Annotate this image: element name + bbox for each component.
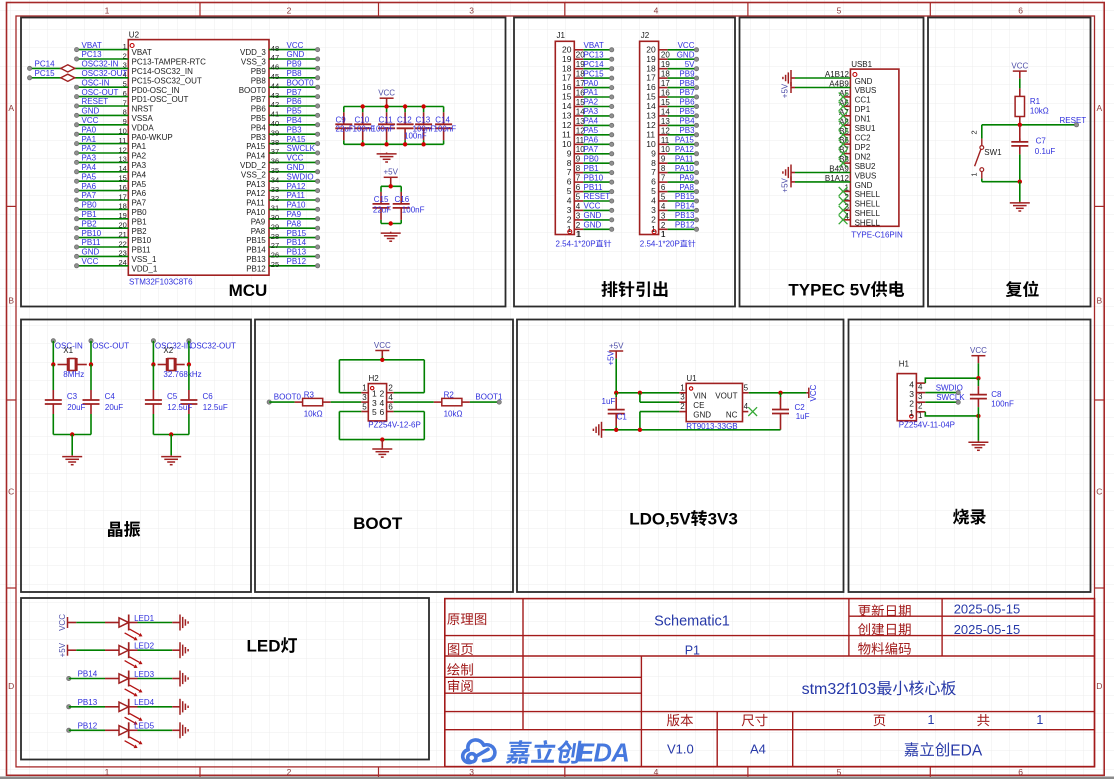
LED4 row, source PB13 [67, 705, 71, 709]
svg-text:PB2: PB2 [82, 219, 98, 228]
svg-text:5: 5 [576, 193, 581, 202]
wire [583, 228, 611, 230]
svg-text:RESET: RESET [82, 97, 109, 106]
svg-text:15: 15 [119, 174, 127, 183]
svg-text:40: 40 [271, 119, 279, 128]
svg-text:VCC: VCC [287, 41, 304, 50]
ground [977, 441, 979, 442]
svg-text:1uF: 1uF [796, 412, 810, 421]
ground [179, 722, 181, 738]
wire [69, 706, 105, 708]
wire [77, 86, 129, 88]
svg-text:VSS_2: VSS_2 [241, 170, 266, 179]
wire [583, 143, 611, 145]
svg-text:VBAT: VBAT [82, 41, 102, 50]
wire [925, 392, 958, 394]
svg-text:R1: R1 [1030, 97, 1041, 106]
wire [76, 649, 105, 651]
wire [76, 622, 105, 624]
svg-text:EDA: EDA [577, 740, 629, 768]
wire [269, 114, 318, 116]
svg-text:0.1uF: 0.1uF [1035, 147, 1056, 156]
svg-text:PA3: PA3 [82, 154, 97, 163]
power flag VCC rotated [806, 392, 808, 394]
wire [386, 107, 388, 113]
J2 pin 8 net PA11 [659, 162, 668, 164]
junction [403, 142, 407, 146]
wire [138, 622, 173, 624]
svg-text:V1.0: V1.0 [667, 742, 694, 757]
svg-text:OSC-OUT: OSC-OUT [92, 342, 129, 351]
ground [381, 448, 383, 449]
svg-text:PB14: PB14 [78, 670, 98, 679]
svg-text:NRST: NRST [132, 105, 154, 114]
wire [981, 179, 983, 182]
title block table [445, 599, 1095, 767]
svg-text:26: 26 [271, 251, 279, 260]
svg-text:9: 9 [661, 155, 666, 164]
junction [1018, 123, 1022, 127]
svg-text:PA9: PA9 [679, 173, 694, 182]
svg-text:13: 13 [119, 155, 127, 164]
LED3 row, source PB14 [67, 676, 71, 680]
J1 pin 16 net PA0 [574, 87, 583, 89]
svg-text:+5V: +5V [607, 350, 616, 365]
J1 pin 8 net PB0 [574, 162, 583, 164]
wire [443, 140, 445, 144]
J2 pin 14 net PB6 [659, 106, 668, 108]
svg-text:36: 36 [271, 157, 279, 166]
svg-text:PA7: PA7 [584, 145, 599, 154]
J1 pin 20 net VBAT [574, 49, 583, 51]
wire [615, 393, 617, 397]
svg-text:33: 33 [271, 185, 279, 194]
wire [77, 218, 129, 220]
svg-text:C16: C16 [395, 195, 410, 204]
wire [668, 172, 697, 174]
wire [404, 107, 406, 113]
wire [269, 58, 318, 60]
svg-text:10: 10 [119, 127, 127, 136]
wire [668, 115, 697, 117]
svg-text:PC15-OSC32_OUT: PC15-OSC32_OUT [132, 76, 202, 85]
wire [640, 411, 679, 413]
svg-text:A: A [1097, 103, 1103, 113]
svg-text:LED3: LED3 [134, 670, 155, 679]
svg-text:34: 34 [271, 175, 279, 184]
svg-text:C15: C15 [374, 195, 389, 204]
svg-text:PB12: PB12 [246, 264, 266, 273]
svg-text:PA7: PA7 [82, 191, 97, 200]
svg-text:J1: J1 [557, 31, 566, 40]
wire [668, 228, 697, 230]
J1 pin 18 net PC14 [574, 68, 583, 70]
svg-text:C12: C12 [397, 116, 412, 125]
power flag +5V rotated [791, 181, 795, 183]
wire [668, 124, 697, 126]
wire [90, 365, 92, 391]
ground [179, 642, 181, 658]
svg-text:13: 13 [646, 111, 656, 121]
svg-text:5: 5 [837, 767, 842, 777]
wire [977, 407, 979, 416]
net pad OSC32-IN [151, 339, 155, 343]
LED4 [105, 706, 119, 708]
wire [269, 227, 318, 229]
block frame led [21, 598, 429, 760]
junction [70, 432, 74, 436]
svg-text:6: 6 [380, 407, 385, 417]
wire [982, 181, 1020, 183]
wire [52, 341, 54, 365]
wire [977, 378, 979, 386]
svg-text:SWDIO: SWDIO [936, 384, 963, 393]
wire [339, 359, 424, 361]
wire [583, 200, 611, 202]
wire [269, 77, 318, 79]
ground [790, 70, 792, 86]
ground [179, 699, 181, 715]
svg-text:PB10: PB10 [584, 173, 604, 182]
svg-text:B: B [8, 296, 14, 306]
svg-text:3: 3 [362, 393, 367, 402]
svg-text:PB1: PB1 [132, 217, 148, 226]
svg-text:PZ254V-12-6P: PZ254V-12-6P [368, 421, 420, 430]
wire GND link [679, 411, 686, 413]
svg-text:PB15: PB15 [675, 192, 695, 201]
wire [583, 124, 611, 126]
svg-text:12: 12 [119, 145, 127, 154]
LED2 [105, 649, 119, 651]
connector J2 [640, 41, 659, 234]
junction [51, 362, 55, 366]
svg-text:1: 1 [105, 767, 110, 777]
J1 pin 2 net GND [574, 219, 583, 221]
wire [977, 363, 979, 378]
svg-text:37: 37 [271, 147, 279, 156]
svg-text:PB0: PB0 [132, 208, 148, 217]
svg-text:USB1: USB1 [851, 60, 872, 69]
svg-text:20uF: 20uF [105, 403, 123, 412]
svg-text:1: 1 [362, 384, 367, 393]
LED3 [105, 678, 119, 680]
wire [152, 341, 154, 365]
J2 pin 13 net PB5 [659, 115, 668, 117]
svg-text:8MHz: 8MHz [63, 370, 84, 379]
svg-text:B: B [1097, 296, 1103, 306]
junction [187, 362, 191, 366]
svg-text:GND: GND [287, 50, 305, 59]
wire [269, 67, 318, 69]
J2 pin 1 net PB12 [659, 228, 668, 230]
wire [470, 401, 499, 403]
svg-text:PB14: PB14 [246, 246, 266, 255]
svg-text:PA10: PA10 [675, 164, 695, 173]
svg-text:47: 47 [271, 53, 279, 62]
wire [583, 77, 611, 79]
svg-text:46: 46 [271, 63, 279, 72]
capacitor C7 [1019, 139, 1021, 142]
svg-text:14: 14 [661, 107, 670, 116]
svg-text:PC15: PC15 [35, 69, 56, 78]
wire [423, 107, 425, 113]
svg-text:1: 1 [661, 230, 666, 239]
wire [188, 341, 190, 365]
svg-text:7: 7 [651, 167, 656, 177]
block frame swd [849, 320, 1091, 593]
block frame typec [740, 18, 924, 307]
svg-text:17: 17 [562, 73, 572, 83]
svg-text:7: 7 [661, 174, 666, 183]
wire [188, 414, 190, 435]
svg-text:2: 2 [576, 221, 581, 230]
wire [269, 199, 318, 201]
svg-text:PB3: PB3 [251, 133, 267, 142]
svg-text:PA9: PA9 [287, 210, 302, 219]
svg-text:PB12: PB12 [675, 221, 695, 230]
svg-text:VCC: VCC [970, 346, 987, 355]
wire [269, 133, 318, 135]
svg-text:VDD_1: VDD_1 [132, 264, 158, 273]
svg-text:SWCLK: SWCLK [287, 144, 316, 153]
svg-text:39: 39 [271, 128, 279, 137]
wire bottom loop [361, 411, 368, 413]
svg-text:PB13: PB13 [246, 255, 266, 264]
svg-text:2: 2 [388, 384, 393, 393]
svg-text:5: 5 [362, 402, 367, 411]
svg-text:VCC: VCC [374, 341, 391, 350]
svg-text:C7: C7 [1036, 137, 1047, 146]
svg-text:29: 29 [271, 222, 279, 231]
wire [338, 360, 340, 393]
junction [169, 432, 173, 436]
J2 pin 6 net PA9 [659, 181, 668, 183]
connector H1 PZ254V-11-04P [897, 374, 916, 421]
resistor R2 [387, 401, 394, 403]
wire [423, 360, 425, 393]
J2 pin 4 net PB15 [659, 200, 668, 202]
J2 pin 19 net GND [659, 58, 668, 60]
svg-text:7: 7 [567, 167, 572, 177]
svg-text:RESET: RESET [1060, 116, 1087, 125]
wire [583, 96, 611, 98]
svg-text:9: 9 [123, 117, 127, 126]
svg-text:GND: GND [584, 221, 602, 230]
svg-text:1: 1 [969, 172, 978, 176]
svg-text:3: 3 [567, 205, 572, 215]
svg-text:1: 1 [123, 42, 127, 51]
svg-text:100nF: 100nF [372, 125, 395, 134]
connector J1 [555, 41, 574, 234]
J1 pin 17 net PC15 [574, 77, 583, 79]
svg-text:BOOT1: BOOT1 [475, 393, 503, 402]
wire [981, 125, 983, 139]
wire [1019, 182, 1021, 202]
svg-text:10kΩ: 10kΩ [444, 409, 463, 418]
wire [71, 435, 73, 456]
svg-text:VDDA: VDDA [132, 123, 155, 132]
wire VOUT [743, 392, 749, 394]
wire [343, 107, 345, 113]
svg-text:38: 38 [271, 138, 279, 147]
wire [269, 255, 318, 257]
svg-text:5V: 5V [685, 60, 695, 69]
svg-text:OSC-OUT: OSC-OUT [82, 88, 119, 97]
junction [361, 104, 365, 108]
wire [77, 199, 129, 201]
svg-text:VCC: VCC [809, 384, 818, 401]
svg-text:BOOT: BOOT [353, 514, 403, 533]
svg-text:3: 3 [651, 205, 656, 215]
svg-text:13: 13 [661, 117, 670, 126]
svg-text:DN1: DN1 [855, 115, 872, 124]
svg-text:PZ254V-11-04P: PZ254V-11-04P [899, 420, 955, 429]
wire [269, 208, 318, 210]
svg-text:2: 2 [969, 130, 978, 134]
power flag VCC [380, 97, 394, 99]
JLCEDA logo [463, 740, 495, 763]
wire [386, 140, 388, 144]
svg-text:16: 16 [119, 183, 127, 192]
J1 pin 9 net PA7 [574, 153, 583, 155]
junction [384, 142, 388, 146]
svg-text:23: 23 [119, 249, 127, 258]
wire [583, 49, 611, 51]
power flag +5V rotated [791, 87, 795, 89]
wire [668, 58, 697, 60]
wire [583, 191, 611, 193]
svg-text:VCC: VCC [378, 89, 395, 98]
wire [77, 133, 129, 135]
svg-text:C: C [8, 487, 14, 497]
wire [77, 49, 129, 51]
svg-text:32.768kHz: 32.768kHz [163, 370, 201, 379]
svg-text:10kΩ: 10kΩ [1030, 106, 1049, 115]
wire [77, 161, 129, 163]
svg-text:44: 44 [271, 81, 279, 90]
wire [269, 190, 318, 192]
svg-text:GND: GND [855, 181, 873, 190]
svg-text:PA15: PA15 [675, 136, 695, 145]
wire [269, 105, 318, 107]
svg-text:PA5: PA5 [82, 172, 97, 181]
J1 pin 1 net GND [574, 228, 583, 230]
svg-text:24: 24 [119, 258, 127, 267]
svg-text:PA7: PA7 [132, 199, 147, 208]
wire [338, 412, 340, 440]
wire [153, 434, 189, 436]
wire [668, 68, 697, 70]
power flag +5V [384, 176, 398, 178]
wire [583, 219, 611, 221]
wire [423, 140, 425, 144]
svg-text:28: 28 [271, 232, 279, 241]
svg-text:17: 17 [661, 79, 670, 88]
svg-text:DP1: DP1 [855, 105, 871, 114]
svg-text:D: D [1096, 681, 1102, 691]
svg-text:35: 35 [271, 166, 279, 175]
svg-text:2.54-1*20P: 2.54-1*20P [640, 240, 680, 249]
svg-text:31: 31 [271, 204, 279, 213]
junction [380, 358, 384, 362]
svg-text:2: 2 [123, 51, 127, 60]
wire [394, 392, 425, 394]
svg-text:SHELL: SHELL [855, 209, 881, 218]
wire [381, 185, 401, 187]
svg-text:PB8: PB8 [287, 69, 303, 78]
svg-text:9: 9 [567, 148, 572, 158]
ground [386, 153, 388, 154]
svg-text:PA11: PA11 [675, 154, 694, 163]
svg-text:PB7: PB7 [679, 88, 695, 97]
svg-text:BOOT0: BOOT0 [274, 393, 302, 402]
wire [69, 678, 105, 680]
svg-text:PB1: PB1 [82, 210, 98, 219]
svg-text:PA3: PA3 [584, 107, 599, 116]
svg-text:PB5: PB5 [679, 107, 695, 116]
junction [976, 414, 980, 418]
svg-text:stm32f103: stm32f103 [802, 681, 877, 698]
J2 pin 15 net PB7 [659, 96, 668, 98]
svg-text:PA6: PA6 [82, 182, 97, 191]
wire [269, 161, 318, 163]
svg-text:PB4: PB4 [287, 116, 303, 125]
svg-text:SHELL: SHELL [855, 219, 881, 228]
svg-text:5: 5 [372, 407, 377, 417]
ground [170, 455, 172, 456]
net port PC14 [28, 66, 32, 70]
svg-text:1: 1 [105, 6, 110, 16]
svg-text:VCC: VCC [584, 202, 601, 211]
svg-text:6: 6 [661, 183, 666, 192]
svg-text:VIN: VIN [693, 392, 707, 401]
svg-text:PA8: PA8 [251, 227, 266, 236]
svg-text:C2: C2 [795, 403, 806, 412]
svg-text:10kΩ: 10kΩ [304, 409, 323, 418]
svg-text:VBUS: VBUS [855, 171, 877, 180]
wire [269, 401, 294, 403]
svg-text:Schematic1: Schematic1 [654, 614, 730, 630]
wire [583, 153, 611, 155]
svg-text:SBU2: SBU2 [855, 162, 876, 171]
ground [790, 165, 792, 181]
svg-text:PC15: PC15 [584, 69, 605, 78]
ground [71, 455, 73, 456]
power flag VCC [1013, 70, 1027, 72]
block frame reset [928, 18, 1091, 307]
power flag VCC [971, 355, 985, 357]
svg-text:C8: C8 [991, 390, 1002, 399]
wire [30, 67, 129, 69]
svg-text:H1: H1 [899, 360, 910, 369]
svg-text:5: 5 [837, 6, 842, 16]
wire [982, 124, 1077, 126]
svg-text:15: 15 [661, 98, 670, 107]
svg-text:PA9: PA9 [251, 217, 266, 226]
svg-text:PB8: PB8 [679, 79, 695, 88]
wire [615, 426, 617, 430]
mcu U2 STM32F103C8T6 [128, 40, 269, 276]
wire [668, 143, 697, 145]
svg-text:PB14: PB14 [675, 202, 695, 211]
wire [269, 49, 318, 51]
wire [152, 365, 154, 391]
wire [443, 107, 445, 113]
J2 pin 16 net PB8 [659, 87, 668, 89]
title 复位 [1006, 281, 1022, 297]
wire [380, 220, 382, 224]
svg-text:CC2: CC2 [855, 134, 872, 143]
